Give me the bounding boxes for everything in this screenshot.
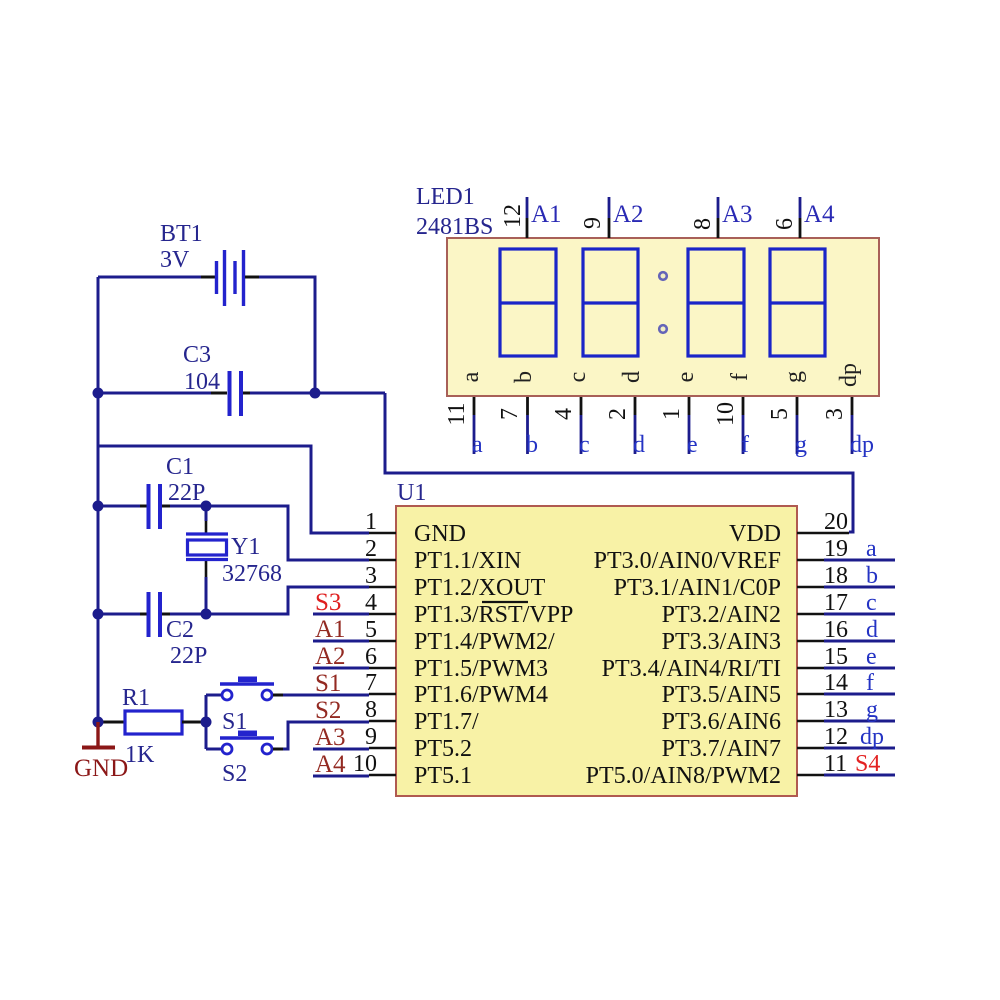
svg-text:22P: 22P <box>170 643 207 669</box>
U1 pin 20 stub <box>797 532 849 535</box>
LED1 digit 2 <box>583 249 638 356</box>
svg-text:16: 16 <box>824 617 848 643</box>
svg-text:6: 6 <box>365 644 377 670</box>
LED1 anode pin number 6 <box>772 218 798 230</box>
U1 pin 5 name PT1.4/PWM2/ <box>414 629 555 655</box>
svg-text:PT3.4/AIN4/RI/TI: PT3.4/AIN4/RI/TI <box>602 656 781 682</box>
U1 pin 7 name PT1.6/PWM4 <box>414 682 548 708</box>
svg-text:3: 3 <box>822 408 848 420</box>
U1 pin 5 number <box>365 617 377 643</box>
svg-text:PT5.0/AIN8/PWM2: PT5.0/AIN8/PWM2 <box>586 763 781 789</box>
svg-text:GND: GND <box>414 521 466 547</box>
svg-text:d: d <box>619 371 645 383</box>
net b label <box>866 563 878 589</box>
svg-text:C3: C3 <box>183 342 211 368</box>
wire GND net to pin1 <box>98 446 369 533</box>
svg-text:PT1.2/XOUT: PT1.2/XOUT <box>414 575 546 601</box>
net g label bottom <box>795 432 807 458</box>
svg-text:d: d <box>866 617 878 643</box>
wire button column <box>205 695 208 749</box>
svg-text:4: 4 <box>365 590 377 616</box>
U1 pin 11 number <box>824 751 847 777</box>
label LED1 <box>416 184 493 240</box>
net g wire <box>824 720 895 723</box>
net S3 wire <box>313 613 369 616</box>
net e wire <box>824 667 895 670</box>
svg-text:f: f <box>866 670 874 696</box>
label Y1 <box>222 534 282 587</box>
op-amp U1 body <box>396 506 797 796</box>
svg-text:10: 10 <box>713 402 739 426</box>
net d label <box>866 617 878 643</box>
svg-text:dp: dp <box>850 432 874 458</box>
U1 pin 1 number <box>365 509 377 535</box>
svg-text:S4: S4 <box>855 751 880 777</box>
svg-text:1: 1 <box>365 509 377 535</box>
U1 pin 17 number <box>824 590 848 616</box>
U1 pin 4 stub <box>369 613 396 616</box>
LED1 segment dp pin number <box>822 408 848 420</box>
LED1 segment c pin number <box>551 408 577 420</box>
LED1 segment d pin wire <box>634 397 637 454</box>
U1 pin 13 stub <box>797 720 824 723</box>
capacitor C2 <box>149 592 161 637</box>
U1 pin 14 name PT3.5/AIN5 <box>662 682 781 708</box>
net A1 label <box>315 616 346 643</box>
svg-text:b: b <box>866 563 878 589</box>
svg-text:7: 7 <box>497 408 523 420</box>
net c wire <box>824 613 895 616</box>
svg-text:b: b <box>526 432 538 458</box>
svg-text:17: 17 <box>824 590 848 616</box>
svg-text:S2: S2 <box>315 697 341 724</box>
LED1 body <box>447 238 879 396</box>
net A4 label <box>315 751 346 778</box>
LED1 segment a letter inside <box>458 371 484 382</box>
U1 pin 2 number <box>365 536 377 562</box>
net d label bottom <box>633 432 645 458</box>
wire R1 left stub <box>98 721 125 724</box>
net e label bottom <box>687 432 698 458</box>
U1 pin 19 number <box>824 536 848 562</box>
U1 pin 2 name PT1.1/XIN <box>414 548 521 574</box>
svg-text:g: g <box>781 371 807 383</box>
net f label bottom <box>741 432 749 458</box>
U1 pin 9 name PT5.2 <box>414 736 472 762</box>
U1 pin 10 number <box>353 751 377 777</box>
node battery/C3 junction <box>310 388 321 399</box>
wire R1 right stub <box>182 721 206 724</box>
svg-text:c: c <box>866 590 877 616</box>
svg-text:g: g <box>795 432 807 458</box>
svg-text:PT1.6/PWM4: PT1.6/PWM4 <box>414 682 548 708</box>
resistor R1 <box>125 711 182 734</box>
U1 pin 4 number <box>365 590 377 616</box>
wire C2 right to pin3 <box>162 587 369 614</box>
svg-text:104: 104 <box>184 369 220 395</box>
svg-text:e: e <box>673 372 699 383</box>
LED1 segment b letter inside <box>511 371 537 383</box>
svg-text:VDD: VDD <box>729 521 781 547</box>
svg-text:R1: R1 <box>122 685 150 711</box>
wire C1 row left <box>98 505 147 508</box>
net A3 wire <box>313 748 369 751</box>
net S3 label <box>315 589 341 616</box>
label C3 <box>183 342 220 395</box>
svg-text:PT3.0/AIN0/VREF: PT3.0/AIN0/VREF <box>594 548 781 574</box>
svg-text:9: 9 <box>580 217 606 229</box>
LED1 segment f letter inside <box>727 373 753 381</box>
svg-text:A1: A1 <box>531 201 562 228</box>
net S4 label <box>855 751 880 777</box>
svg-text:4: 4 <box>551 408 577 420</box>
U1 pin 17 stub <box>797 613 824 616</box>
LED1 digit 3 <box>688 249 744 356</box>
svg-text:15: 15 <box>824 644 848 670</box>
label BT1 <box>160 221 203 273</box>
net a wire <box>824 559 895 562</box>
svg-text:12: 12 <box>824 724 848 750</box>
label C2 <box>166 617 207 669</box>
U1 pin 3 stub <box>369 586 396 589</box>
U1 pin 19 stub <box>797 559 824 562</box>
svg-text:PT5.2: PT5.2 <box>414 736 472 762</box>
LED1 segment b pin number <box>497 408 523 420</box>
svg-text:PT1.3/RST/VPP: PT1.3/RST/VPP <box>414 602 573 628</box>
svg-text:PT3.7/AIN7: PT3.7/AIN7 <box>662 736 781 762</box>
svg-text:5: 5 <box>365 617 377 643</box>
U1 pin 7 stub <box>369 693 396 696</box>
svg-text:PT1.4/PWM2/: PT1.4/PWM2/ <box>414 629 555 655</box>
U1 pin 20 name VDD <box>729 521 781 547</box>
wire C3 row left <box>98 392 227 395</box>
svg-text:C2: C2 <box>166 617 194 643</box>
U1 pin 16 stub <box>797 640 824 643</box>
LED1 segment f pin wire <box>742 397 745 454</box>
capacitor C3 <box>230 371 242 416</box>
U1 pin 1 name GND <box>414 521 466 547</box>
LED1 segment a pin wire <box>473 397 476 454</box>
svg-text:9: 9 <box>365 724 377 750</box>
svg-text:3: 3 <box>365 563 377 589</box>
U1 pin 8 stub <box>369 720 396 723</box>
net S1 label <box>315 670 341 697</box>
wire left rail <box>97 277 100 722</box>
svg-text:19: 19 <box>824 536 848 562</box>
U1 pin 15 name PT3.4/AIN4/RI/TI <box>602 656 781 682</box>
U1 pin 18 name PT3.1/AIN1/C0P <box>614 575 781 601</box>
svg-text:S3: S3 <box>315 589 341 616</box>
net e label <box>866 644 877 670</box>
LED1 segment dp letter inside <box>836 363 862 387</box>
svg-text:12: 12 <box>500 204 526 228</box>
wire S1 to pin7 <box>273 694 369 697</box>
switch S1 <box>206 677 274 701</box>
svg-text:A4: A4 <box>315 751 346 778</box>
svg-text:b: b <box>511 371 537 383</box>
LED1 segment g pin number <box>767 408 793 420</box>
svg-text:8: 8 <box>365 697 377 723</box>
U1 pin 8 number <box>365 697 377 723</box>
net b wire <box>824 586 895 589</box>
svg-text:C1: C1 <box>166 454 194 480</box>
LED1 segment e pin number <box>659 408 685 420</box>
svg-text:e: e <box>687 432 698 458</box>
U1 pin 18 stub <box>797 586 824 589</box>
LED1 segment f pin number <box>713 402 739 426</box>
net A1 wire <box>313 640 369 643</box>
net a label <box>866 536 877 562</box>
wire battery right to C3 junction <box>245 277 315 393</box>
svg-text:PT1.7/: PT1.7/ <box>414 709 479 735</box>
net c label <box>866 590 877 616</box>
U1 pin 12 number <box>824 724 848 750</box>
net c label bottom <box>579 432 590 458</box>
svg-text:f: f <box>727 373 753 381</box>
svg-text:c: c <box>565 372 591 383</box>
battery BT1 <box>217 250 244 306</box>
LED1 anode pin number 9 <box>580 217 606 229</box>
svg-text:3V: 3V <box>160 247 190 273</box>
U1 pin 10 name PT5.1 <box>414 763 472 789</box>
U1 pin 6 number <box>365 644 377 670</box>
svg-text:dp: dp <box>836 363 862 387</box>
net S4 wire <box>824 774 895 777</box>
U1 pin 13 number <box>824 697 848 723</box>
svg-text:8: 8 <box>690 218 716 230</box>
LED1 segment e letter inside <box>673 372 699 383</box>
net b label bottom <box>526 432 538 458</box>
switch S2 <box>206 731 274 755</box>
svg-text:S2: S2 <box>222 761 247 787</box>
svg-text:22P: 22P <box>168 480 205 506</box>
U1 pin 6 stub <box>369 667 396 670</box>
LED1 segment a pin number <box>444 402 470 425</box>
node R1 left <box>93 717 104 728</box>
LED1 segment c letter inside <box>565 372 591 383</box>
svg-text:11: 11 <box>824 751 847 777</box>
net A3 label <box>315 724 346 751</box>
svg-text:11: 11 <box>444 402 470 425</box>
svg-text:PT5.1: PT5.1 <box>414 763 472 789</box>
svg-text:A2: A2 <box>315 643 346 670</box>
net dp wire <box>824 747 895 750</box>
U1 pin 16 name PT3.3/AIN3 <box>662 629 781 655</box>
U1 pin 18 number <box>824 563 848 589</box>
U1 pin 16 number <box>824 617 848 643</box>
LED1 anode label A4 <box>804 201 835 228</box>
U1 pin 9 number <box>365 724 377 750</box>
svg-text:PT1.5/PWM3: PT1.5/PWM3 <box>414 656 548 682</box>
LED1 segment g pin wire <box>796 397 799 454</box>
net A4 wire <box>313 775 369 778</box>
capacitor C1 <box>149 484 161 529</box>
svg-text:PT3.1/AIN1/C0P: PT3.1/AIN1/C0P <box>614 575 781 601</box>
svg-text:2: 2 <box>605 408 631 420</box>
U1 pin 2 stub <box>369 559 396 562</box>
net d wire <box>824 640 895 643</box>
svg-text:2481BS: 2481BS <box>416 214 493 240</box>
U1 pin 20 number <box>824 509 848 535</box>
net A2 label <box>315 643 346 670</box>
wire C1 right to pin2 <box>162 506 369 560</box>
LED1 anode pin number 12 <box>500 204 526 228</box>
svg-text:d: d <box>633 432 645 458</box>
U1 pin 14 stub <box>797 693 824 696</box>
LED1 digit 4 <box>770 249 825 356</box>
label C1 <box>166 454 205 506</box>
U1 pin 11 stub <box>797 774 824 777</box>
svg-text:2: 2 <box>365 536 377 562</box>
svg-text:PT1.1/XIN: PT1.1/XIN <box>414 548 521 574</box>
LED1 anode pin 12 wire <box>526 197 529 238</box>
label U1 <box>397 480 426 506</box>
svg-text:g: g <box>866 697 878 723</box>
node C2 right <box>201 609 212 620</box>
U1 pin 10 stub <box>369 774 396 777</box>
LED1 segment b pin wire <box>526 397 529 454</box>
svg-text:7: 7 <box>365 670 377 696</box>
U1 pin 1 stub <box>369 532 396 535</box>
U1 pin 8 name PT1.7/ <box>414 709 479 735</box>
label S2 <box>222 761 247 787</box>
ground <box>74 722 128 782</box>
net S2 label <box>315 697 341 724</box>
svg-text:a: a <box>458 371 484 382</box>
U1 pin 14 number <box>824 670 848 696</box>
svg-text:A4: A4 <box>804 201 835 228</box>
U1 pin 12 stub <box>797 747 824 750</box>
net f wire <box>824 693 895 696</box>
U1 pin 17 name PT3.2/AIN2 <box>662 602 781 628</box>
LED1 anode pin 6 wire <box>799 197 802 238</box>
U1 pin 5 stub <box>369 640 396 643</box>
LED1 segment g letter inside <box>781 371 807 383</box>
U1 pin 19 name PT3.0/AIN0/VREF <box>594 548 781 574</box>
svg-text:A3: A3 <box>315 724 346 751</box>
U1 pin 9 stub <box>369 747 396 750</box>
svg-text:1K: 1K <box>125 742 155 768</box>
svg-text:PT3.5/AIN5: PT3.5/AIN5 <box>662 682 781 708</box>
svg-text:f: f <box>741 432 749 458</box>
svg-text:PT3.6/AIN6: PT3.6/AIN6 <box>662 709 781 735</box>
wire C3 right to VDD <box>243 393 853 532</box>
svg-text:GND: GND <box>74 755 128 782</box>
net A2 wire <box>313 667 369 670</box>
node R1 right <box>201 717 212 728</box>
svg-text:c: c <box>579 432 590 458</box>
U1 pin 13 name PT3.6/AIN6 <box>662 709 781 735</box>
svg-text:5: 5 <box>767 408 793 420</box>
net dp label bottom <box>850 432 874 458</box>
svg-text:a: a <box>866 536 877 562</box>
LED1 segment c pin wire <box>580 397 583 454</box>
crystal Y1 <box>186 534 228 560</box>
svg-text:dp: dp <box>860 724 884 750</box>
svg-text:Y1: Y1 <box>231 534 260 560</box>
label R1 <box>122 685 155 768</box>
svg-text:32768: 32768 <box>222 561 282 587</box>
net g label <box>866 697 878 723</box>
svg-text:PT3.2/AIN2: PT3.2/AIN2 <box>662 602 781 628</box>
svg-text:13: 13 <box>824 697 848 723</box>
svg-text:A3: A3 <box>722 201 753 228</box>
U1 pin 15 number <box>824 644 848 670</box>
svg-text:18: 18 <box>824 563 848 589</box>
wire S2 to pin8 <box>273 722 369 749</box>
svg-text:A1: A1 <box>315 616 346 643</box>
U1 pin 4 name PT1.3/RST/VPP <box>414 602 573 628</box>
svg-text:BT1: BT1 <box>160 221 203 247</box>
LED1 segment d pin number <box>605 408 631 420</box>
LED1 segment d letter inside <box>619 371 645 383</box>
svg-text:14: 14 <box>824 670 848 696</box>
net a label bottom <box>472 432 483 458</box>
node C2 left <box>93 609 104 620</box>
LED1 anode label A1 <box>531 201 562 228</box>
svg-text:U1: U1 <box>397 480 426 506</box>
LED1 segment dp pin wire <box>851 397 854 454</box>
svg-text:20: 20 <box>824 509 848 535</box>
node left rail C3 <box>93 388 104 399</box>
LED1 anode label A2 <box>613 201 644 228</box>
U1 pin 12 name PT3.7/AIN7 <box>662 736 781 762</box>
svg-text:A2: A2 <box>613 201 644 228</box>
LED1 colon dots <box>659 272 667 333</box>
svg-text:PT3.3/AIN3: PT3.3/AIN3 <box>662 629 781 655</box>
node C1 left <box>93 501 104 512</box>
U1 RST overbar <box>482 601 528 603</box>
net f label <box>866 670 874 696</box>
svg-text:a: a <box>472 432 483 458</box>
LED1 anode pin 9 wire <box>608 197 611 238</box>
LED1 anode label A3 <box>722 201 753 228</box>
U1 pin 7 number <box>365 670 377 696</box>
svg-text:LED1: LED1 <box>416 184 475 210</box>
node C1 right <box>201 501 212 512</box>
LED1 anode pin number 8 <box>690 218 716 230</box>
svg-text:e: e <box>866 644 877 670</box>
U1 pin 6 name PT1.5/PWM3 <box>414 656 548 682</box>
net dp label <box>860 724 884 750</box>
svg-text:6: 6 <box>772 218 798 230</box>
LED1 segment e pin wire <box>688 397 691 454</box>
svg-text:10: 10 <box>353 751 377 777</box>
label S1 <box>222 709 247 735</box>
wire C2 row left <box>98 613 147 616</box>
U1 pin 3 number <box>365 563 377 589</box>
LED1 digit 1 <box>500 249 556 356</box>
U1 pin 3 name PT1.2/XOUT <box>414 575 546 601</box>
svg-text:1: 1 <box>659 408 685 420</box>
U1 pin 15 stub <box>797 667 824 670</box>
wire crystal vertical <box>205 506 208 614</box>
U1 pin 11 name PT5.0/AIN8/PWM2 <box>586 763 781 789</box>
svg-text:S1: S1 <box>315 670 341 697</box>
LED1 anode pin 8 wire <box>717 197 720 238</box>
wire battery top left <box>98 276 215 279</box>
